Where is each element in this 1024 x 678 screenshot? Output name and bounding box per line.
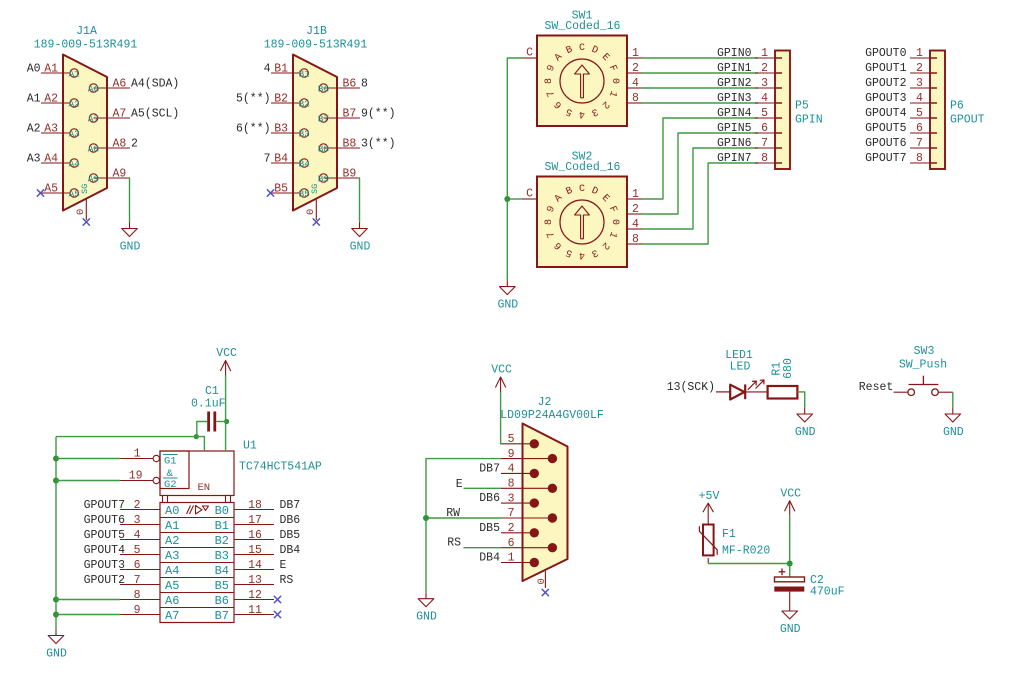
svg-text:C: C [526,47,533,60]
label RS wire [447,537,501,550]
svg-text:E: E [280,559,287,572]
svg-text:GPOUT: GPOUT [950,114,985,127]
svg-text:J1A: J1A [76,25,97,38]
svg-text:C: C [579,43,585,54]
svg-text:1: 1 [134,448,141,461]
J1A pin A9 [88,167,130,184]
svg-text:7: 7 [508,507,515,520]
svg-text:RW: RW [446,507,460,520]
svg-text:2: 2 [916,62,923,75]
capacitor C1 value 0.1uF [191,398,226,411]
svg-text:A1: A1 [68,68,80,79]
connector P6 value GPOUT [950,114,985,127]
svg-text:GPIN5: GPIN5 [717,122,752,135]
svg-text:1: 1 [916,47,923,60]
U1 pin 13 (B5) [215,574,294,593]
svg-text:GPOUT7: GPOUT7 [84,499,125,512]
junction rail pin1 [53,456,59,462]
svg-text:4: 4 [579,108,585,119]
svg-text:B6: B6 [318,83,330,94]
connector P5 reference [795,100,809,113]
J1A shield pin SG [75,184,90,226]
svg-text:0.1uF: 0.1uF [191,398,226,411]
svg-text:A8: A8 [88,143,100,154]
svg-text:SW_Coded_16: SW_Coded_16 [545,20,621,33]
P6 pin 4 (GPOUT3) [865,92,937,105]
svg-text:A0: A0 [165,504,179,518]
svg-text:8: 8 [508,478,515,491]
svg-text:0: 0 [75,209,87,215]
svg-text:4: 4 [916,92,923,105]
junction rail pin19 [53,478,59,484]
svg-text:4: 4 [264,62,271,75]
svg-text:7: 7 [761,137,768,150]
power flag VCC C2 [780,487,801,516]
svg-text:DB7: DB7 [479,462,500,475]
svg-text:GPOUT2: GPOUT2 [865,77,907,90]
svg-text:8: 8 [361,77,368,90]
P6 pin 5 (GPOUT4) [865,107,937,120]
J1A pin A4 [27,152,81,169]
svg-text:11: 11 [248,604,262,617]
led LED1 symbol [730,380,764,400]
svg-text:G2: G2 [164,479,177,491]
connector J1A body [63,55,107,211]
svg-text:VCC: VCC [491,364,512,377]
svg-text:B1: B1 [298,68,310,79]
J1A pin A7 [88,107,180,124]
wire SW1 pin 1 to GPIN0 [642,57,758,59]
J2 pin 2 [479,522,539,538]
switch SW3 reference [914,345,935,358]
svg-text:A6: A6 [165,594,179,608]
wire left GND rail [55,437,57,630]
J2 pin 6 [501,537,557,553]
svg-text:A7: A7 [165,609,179,623]
P6 pin 3 (GPOUT2) [865,77,937,90]
P6 pin 2 (GPOUT1) [865,62,937,75]
label E wire [456,478,501,491]
svg-text:A5: A5 [165,579,179,593]
svg-text:GND: GND [350,241,371,254]
SW1 pin 8 [627,92,642,105]
U1 pin 17 (B1) [215,514,301,533]
J1A pin A8 [88,137,138,154]
svg-text:B3: B3 [274,122,288,135]
svg-text:RS: RS [447,537,461,550]
svg-text:3: 3 [916,77,923,90]
P5 pin 4 (GPIN3) [717,92,782,105]
svg-text:A1: A1 [44,62,58,75]
connector J2 body [523,424,568,582]
svg-text:2: 2 [632,203,639,216]
wire R1 to GND [797,392,804,408]
svg-text:F1: F1 [722,528,736,541]
wire rail to U1 pin 9 [56,614,120,616]
svg-text:B6: B6 [343,77,357,90]
wire LED1 to R1 [745,391,767,393]
connector P5 value GPIN [795,114,823,127]
wire SW1 C / SW2 C common rail [507,58,522,281]
J2 pin 7 [501,507,557,523]
ground GND SW3 [943,408,964,439]
P5 pin 8 (GPIN7) [717,152,782,165]
svg-text:B8: B8 [343,137,357,150]
svg-text:18: 18 [248,499,262,512]
wire SW1 pin 2 to GPIN1 [642,72,758,74]
U1 tristate buffer glyph [187,506,209,515]
junction F1-VCC-C2 [787,561,793,567]
svg-text:A4: A4 [165,564,179,578]
wire F1 to junction [708,558,790,564]
J1B pin B5 [267,182,310,199]
rotary switch SW2 value SW_Coded_16 [545,161,621,174]
SW2 pin 1 [627,188,642,201]
svg-text:189-009-513R491: 189-009-513R491 [264,39,368,52]
J1B pin B1 [264,62,311,79]
svg-text:17: 17 [248,514,262,527]
U1 pin 1 [120,448,160,462]
svg-text:A2: A2 [44,92,58,105]
svg-text:8: 8 [761,152,768,165]
svg-text:GPIN1: GPIN1 [717,62,752,75]
svg-text:0: 0 [536,578,548,584]
J1B pin B9 [318,167,360,184]
svg-text:16: 16 [248,529,262,542]
svg-text:B0: B0 [215,504,229,518]
capacitor C2 [774,577,804,592]
resistor R1 [768,386,798,399]
svg-text:GPIN3: GPIN3 [717,92,752,105]
connector P5 body [775,51,790,170]
svg-text:A2: A2 [68,98,80,109]
svg-text:A7: A7 [88,113,99,124]
connector P6 reference [950,100,964,113]
J2 pin 8 [501,478,557,493]
svg-text:680: 680 [782,358,795,379]
U1 pin 9 (A7) [120,604,179,623]
SW2 pin C [522,188,537,201]
svg-text:5: 5 [508,433,515,446]
label Reset [859,381,894,394]
wire SW3 to GND [938,392,952,408]
svg-text:SG: SG [80,184,90,194]
power flag +5V [699,490,720,525]
wire VCC to J2 pin 5 [500,392,502,444]
U1 pin 18 (B0) [215,499,301,518]
J2 pin 4 [479,462,539,478]
svg-text:B2: B2 [215,534,229,548]
svg-text:5: 5 [916,107,923,120]
connector J1B body [293,55,337,211]
svg-text:8: 8 [632,233,639,246]
SW1 pin 1 [627,47,642,60]
svg-text:A8: A8 [113,137,127,150]
SW2 pin 2 [627,203,642,216]
svg-text:GND: GND [497,299,518,312]
svg-text:4: 4 [134,529,141,542]
capacitor C2 value 470uF [810,586,845,599]
svg-text:B5: B5 [298,188,310,199]
svg-text:4: 4 [632,77,639,90]
svg-text:B3: B3 [298,128,310,139]
svg-text:A3: A3 [27,152,41,165]
svg-text:A4(SDA): A4(SDA) [131,77,179,90]
svg-text:A6: A6 [113,77,127,90]
svg-text:1: 1 [632,47,639,60]
svg-text:8: 8 [916,152,923,165]
svg-text:3(**): 3(**) [361,137,396,150]
power flag VCC J2 [491,364,512,393]
svg-text:4: 4 [579,249,585,260]
svg-text:8: 8 [134,589,141,602]
wire J1B pin B9 to GND [359,178,362,223]
wire Reset to SW3 [894,391,908,393]
J1A pin A2 [27,92,81,109]
J2 shield pin [536,571,549,596]
svg-text:GPOUT5: GPOUT5 [84,529,126,542]
svg-text:B9: B9 [343,167,357,180]
svg-text:GND: GND [795,426,816,439]
svg-text:B9: B9 [318,173,330,184]
P5 pin 2 (GPIN1) [717,62,782,75]
svg-text:B7: B7 [318,113,329,124]
SW1 pin 2 [627,62,642,75]
U1 gate label &amp; [167,468,174,480]
svg-text:0: 0 [609,78,620,84]
svg-text:DB4: DB4 [280,544,301,557]
P5 pin 1 (GPIN0) [717,47,782,60]
rotary switch SW1 reference [572,10,593,23]
svg-text:Reset: Reset [859,381,894,394]
P5 pin 6 (GPIN5) [717,122,782,135]
svg-text:C: C [579,184,585,195]
svg-text:B4: B4 [298,158,310,169]
svg-text:5: 5 [134,544,141,557]
U1 pin 6 (A4) [84,559,180,578]
svg-text:0: 0 [305,209,317,215]
SW1 hex position digits [544,43,620,119]
svg-text:14: 14 [248,559,262,572]
svg-text:GND: GND [416,611,437,624]
connector J1B reference [306,25,327,38]
connector J1A reference [76,25,97,38]
svg-text:GND: GND [46,648,67,661]
U1 pin 12 (B6) [215,589,282,608]
wire VCC to U1 pin 20 [225,376,227,452]
svg-text:GPOUT7: GPOUT7 [865,152,906,165]
svg-text:GPOUT6: GPOUT6 [84,514,126,527]
capacitor C2 polarity + [779,568,786,575]
ground GND J1B [350,223,371,254]
wire rail to U1 pin 8 [56,599,120,601]
U1 pin 8 (A6) [120,589,179,608]
svg-text:GPOUT5: GPOUT5 [865,122,907,135]
svg-text:7: 7 [916,137,923,150]
junction SW2 C [504,196,510,202]
led LED1 reference [725,349,753,362]
svg-text:EN: EN [198,482,211,494]
svg-text:A9: A9 [113,167,127,180]
svg-text:6: 6 [508,537,515,550]
svg-text:G1: G1 [164,456,177,468]
svg-text:13: 13 [248,574,262,587]
svg-text:B1: B1 [215,519,229,533]
svg-text:3: 3 [508,492,515,505]
ic U1 reference [243,440,257,453]
U1 pin 2 (A0) [84,499,180,518]
svg-text:470uF: 470uF [810,586,845,599]
svg-text:9: 9 [508,448,515,461]
wire C2 to GND [789,592,791,605]
svg-text:GPIN: GPIN [795,114,823,127]
junction C1-VCC [224,419,229,424]
svg-text:A3: A3 [44,122,58,135]
svg-text:B5: B5 [215,579,229,593]
J1B pin B3 [236,122,310,139]
capacitor C2 reference [810,574,824,587]
svg-text:3: 3 [761,77,768,90]
wire 13(SCK) to LED1 [716,391,730,393]
U1 pin 3 (A1) [84,514,180,533]
J1B pin B7 [318,107,396,124]
svg-text:VCC: VCC [216,347,237,360]
svg-text:P5: P5 [795,100,809,113]
svg-text:1: 1 [632,188,639,201]
svg-text:GND: GND [780,623,801,636]
ground GND C2 [780,605,801,636]
svg-text:0: 0 [609,219,620,225]
wire C1 left plate to rail [197,422,207,437]
wire SW1 pin 4 to GPIN2 [642,87,758,89]
svg-text:2: 2 [508,522,515,535]
svg-text:B6: B6 [215,594,229,608]
svg-text:B5: B5 [274,182,288,195]
svg-text:A3: A3 [68,128,80,139]
svg-text:U1: U1 [243,440,257,453]
svg-text:GPOUT3: GPOUT3 [865,92,907,105]
ground GND J2 [416,593,437,624]
svg-text:9(**): 9(**) [361,107,396,120]
SW2 pin 4 [627,218,642,231]
svg-text:5(**): 5(**) [236,92,271,105]
svg-text:GND: GND [120,241,141,254]
svg-text:A4: A4 [68,158,80,169]
connector J1A value 189-009-513R491 [34,39,138,52]
svg-text:GPOUT0: GPOUT0 [865,47,907,60]
resistor R1 value 680 [782,358,795,379]
svg-text:4: 4 [508,463,515,476]
svg-text:GPOUT4: GPOUT4 [84,544,126,557]
connector J1B value 189-009-513R491 [264,39,368,52]
svg-text:4: 4 [632,218,639,231]
J1B pin B8 [318,137,396,154]
wire J2 pin 9 to GND rail [426,459,501,593]
svg-text:A6: A6 [88,83,100,94]
svg-text:A5: A5 [68,188,80,199]
U1 gate label G1 [163,455,178,468]
svg-text:B2: B2 [274,92,288,105]
U1 pin 14 (B4) [215,559,287,578]
svg-text:GPOUT1: GPOUT1 [865,62,907,75]
svg-text:B4: B4 [215,564,229,578]
J2 pin 5 [501,433,539,448]
svg-text:C: C [526,188,533,201]
svg-text:8: 8 [632,92,639,105]
switch SW3 value SW_Push [899,359,947,372]
ic U1 value TC74HCT541AP [239,461,322,474]
SW2 dial arrow [575,206,590,239]
svg-text:8: 8 [544,219,555,225]
rotary switch SW1 value SW_Coded_16 [545,20,621,33]
svg-text:A5: A5 [44,182,58,195]
connector J2 value LD09P24A4GV00LF [500,409,604,422]
svg-text:B3: B3 [215,549,229,563]
svg-text:DB6: DB6 [280,514,301,527]
power flag VCC U1 [216,347,237,376]
svg-text:DB4: DB4 [479,552,500,565]
P6 pin 7 (GPOUT6) [865,137,937,150]
P6 pin 6 (GPOUT5) [865,122,937,135]
P6 pin 1 (GPOUT0) [865,47,937,60]
switch SW3 symbol [908,376,939,396]
J2 pin 9 [501,448,557,464]
U1 pin 7 (A5) [84,574,180,593]
svg-text:DB7: DB7 [280,499,301,512]
wire SW2 pin 1 to GPIN4 [642,118,758,199]
svg-text:1: 1 [508,552,515,565]
wire J1A pin A9 to GND [129,178,132,223]
ground GND switches [497,281,518,312]
svg-text:B7: B7 [215,609,229,623]
P6 pin 8 (GPOUT7) [865,152,937,165]
svg-text:C1: C1 [205,385,219,398]
svg-text:1: 1 [761,47,768,60]
svg-text:A5(SCL): A5(SCL) [131,107,179,120]
svg-text:B2: B2 [298,98,310,109]
rotary switch SW1 body [537,36,627,127]
P5 pin 5 (GPIN4) [717,107,782,120]
svg-text:2: 2 [632,62,639,75]
svg-text:6: 6 [916,122,923,135]
junction RW rail [423,515,429,521]
svg-text:4: 4 [761,92,768,105]
fuse F1 value MF-R020 [722,545,770,558]
svg-text:7: 7 [264,152,271,165]
ground GND U1 rail [46,630,67,661]
U1 pin 15 (B3) [215,544,301,563]
svg-text:A2: A2 [27,122,41,135]
svg-text:A9: A9 [88,173,100,184]
svg-text:6(**): 6(**) [236,122,271,135]
svg-text:GPOUT6: GPOUT6 [865,137,907,150]
svg-text:B1: B1 [274,62,288,75]
SW2 hex position digits [544,184,620,260]
wire VCC to C2 [789,516,791,577]
svg-text:J1B: J1B [306,25,327,38]
svg-text:SW_Coded_16: SW_Coded_16 [545,161,621,174]
svg-text:RS: RS [280,574,294,587]
ground GND J1A [120,223,141,254]
wire C1 right plate to VCC [216,421,226,423]
svg-text:DB5: DB5 [280,529,301,542]
capacitor C1 reference [205,385,219,398]
wire SW1 pin 8 to GPIN3 [642,102,758,104]
ic U1 control block body [160,451,234,503]
svg-text:GPIN4: GPIN4 [717,107,752,120]
resistor R1 reference [770,362,783,376]
J1B pin B6 [318,77,368,94]
